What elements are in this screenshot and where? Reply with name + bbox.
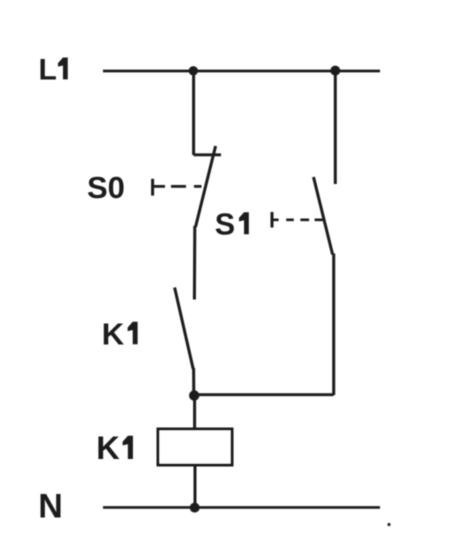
- wire: coil K1 down to N: [194, 465, 197, 508]
- label K1 (contact): [102, 316, 138, 351]
- svg-text:K: K: [102, 316, 125, 351]
- rail L1: [103, 70, 380, 73]
- rail N: [103, 506, 380, 509]
- contact K1 (NO, latching): lever: [175, 288, 194, 370]
- actuator of S1: plunger T-bar: [271, 212, 274, 228]
- wire: L1 down to S0: [192, 71, 195, 155]
- stray ink mark (scan artifact): [387, 523, 390, 526]
- actuator of S0: dashed link: [153, 185, 202, 188]
- svg-text:S: S: [215, 207, 235, 241]
- contact K1 (NO): lower terminal segment: [192, 368, 195, 395]
- pushbutton S0 (NC contact): lever: [196, 146, 216, 227]
- label S1: [215, 207, 249, 241]
- node: L1 / S1-branch junction: [330, 66, 340, 76]
- pushbutton S0 (NC contact): stop bar: [194, 153, 221, 156]
- wire: L1 down to S1: [334, 71, 337, 184]
- node: L1 / S0-branch junction: [189, 66, 198, 75]
- wire: junction down to coil K1: [193, 395, 196, 429]
- svg-text:L: L: [39, 53, 57, 86]
- coil K1 (contactor coil): [158, 429, 232, 465]
- label L1: [39, 53, 68, 86]
- wire: bottom tie from K1/coil node to S1 branch: [194, 393, 334, 396]
- svg-text:N: N: [38, 487, 63, 525]
- pushbutton S1 (NO contact): lever: [314, 177, 333, 255]
- node: coil-top junction: [189, 390, 199, 400]
- wire: S0 to K1 contact: [193, 226, 196, 300]
- actuator of S0: plunger T-bar: [151, 179, 154, 196]
- node: N junction: [190, 503, 200, 513]
- actuator of S1: dashed link: [272, 218, 323, 221]
- wire: S1 down to coil-top junction: [332, 254, 335, 396]
- svg-text:S0: S0: [87, 170, 125, 205]
- svg-text:K: K: [96, 430, 120, 466]
- label K1 (coil): [96, 430, 133, 466]
